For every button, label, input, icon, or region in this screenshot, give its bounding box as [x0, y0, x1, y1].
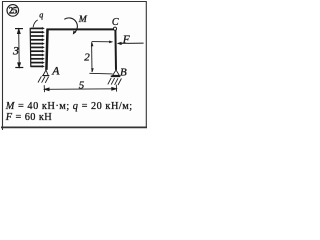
- svg-text:M = 40 кН·м; q = 20 кН/м;: M = 40 кН·м; q = 20 кН/м;: [5, 101, 133, 112]
- svg-text:2: 2: [84, 52, 90, 64]
- svg-text:B: B: [120, 66, 127, 78]
- svg-text:q: q: [39, 11, 43, 20]
- svg-text:A: A: [51, 64, 60, 78]
- svg-text:M: M: [78, 14, 88, 25]
- svg-text:F: F: [122, 34, 130, 46]
- svg-text:25: 25: [9, 5, 18, 15]
- svg-text:F = 60 кН: F = 60 кН: [5, 112, 52, 123]
- svg-text:C: C: [112, 17, 119, 28]
- svg-text:3: 3: [12, 43, 19, 57]
- svg-text:5: 5: [79, 79, 85, 91]
